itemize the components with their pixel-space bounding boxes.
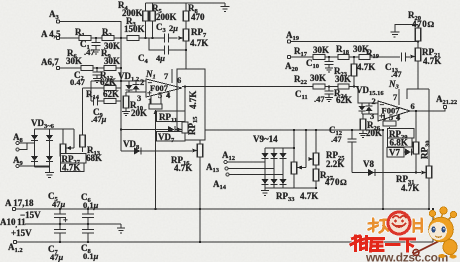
node A13	[206, 162, 274, 174]
wire A4,5	[60, 37, 79, 39]
wire	[325, 86, 338, 88]
pin 1	[148, 96, 152, 106]
diode array V9~14	[253, 130, 316, 188]
node A21,22	[436, 94, 457, 109]
VD7 label box	[157, 132, 186, 145]
wire VD8 line	[121, 150, 192, 152]
resistor R12	[83, 70, 122, 91]
wire	[114, 37, 121, 39]
resistor R3	[121, 16, 164, 41]
potentiometer RP15	[178, 85, 200, 140]
capacitor C4	[138, 38, 186, 65]
wire A6,7	[60, 67, 81, 69]
capacitor C9	[91, 97, 107, 124]
capacitor C11	[295, 87, 334, 105]
junction	[415, 171, 417, 173]
potentiometer RP29	[383, 121, 396, 131]
diode VD3	[31, 135, 38, 141]
watermark mascot	[413, 207, 457, 259]
diode VD8	[123, 139, 141, 155]
6.8K label box	[388, 138, 413, 148]
capacitor C8	[81, 224, 99, 261]
ground bridge	[45, 167, 54, 178]
junction dots rails	[59, 208, 61, 210]
wire box left edge	[382, 130, 384, 209]
resistor R4	[118, 0, 148, 38]
wire non-inverting U2	[362, 113, 378, 115]
junction	[353, 56, 355, 58]
wire A3 to bus	[60, 22, 121, 39]
diode VD5	[31, 156, 38, 162]
wire	[325, 56, 338, 58]
diode V7	[404, 149, 416, 156]
op-amp U1 F007	[145, 69, 182, 98]
capacitor C5	[48, 191, 68, 225]
resistor R23	[334, 57, 357, 87]
potentiometer RP16	[171, 140, 203, 242]
wire	[116, 67, 121, 69]
resistor R5	[150, 3, 177, 38]
junction	[95, 37, 97, 39]
resistor R6	[66, 48, 93, 71]
potentiometer RP25	[309, 130, 346, 169]
bridge wires	[34, 129, 36, 167]
potentiometer RP7	[179, 27, 209, 69]
capacitor C2	[70, 68, 102, 87]
junction	[328, 85, 330, 87]
RP11 label box	[157, 111, 186, 124]
node A20	[285, 55, 298, 73]
pin 5	[389, 112, 393, 122]
node A19	[286, 30, 300, 43]
capacitor C3	[156, 22, 178, 43]
capacitor C7	[48, 224, 66, 262]
wire 0V rail	[25, 223, 121, 225]
wire	[349, 56, 359, 58]
resistor R19	[357, 48, 400, 72]
resistor R18	[336, 44, 369, 60]
resistor R10	[123, 92, 147, 118]
ground top	[221, 3, 230, 12]
wire A20	[291, 56, 313, 58]
watermark stamp	[369, 212, 422, 234]
RP29 label box	[388, 129, 415, 142]
resistor R9	[101, 48, 120, 71]
junction	[185, 49, 187, 51]
wire op-amp inverting input	[91, 80, 146, 82]
resistor R2	[102, 27, 120, 51]
pin 7	[393, 89, 399, 105]
diode V14	[280, 179, 287, 185]
resistor R20	[408, 10, 435, 41]
bus vertical A3 line	[120, 38, 122, 151]
ground R20	[391, 25, 419, 38]
junction	[120, 128, 122, 130]
diode VD7	[168, 126, 181, 133]
capacitor C13	[385, 53, 410, 80]
diode V8	[352, 159, 421, 176]
potentiometer RP21	[411, 47, 442, 89]
junction	[120, 37, 122, 39]
wire right rail drop	[432, 209, 434, 242]
V7 label box	[387, 148, 404, 158]
pin 5	[158, 90, 162, 104]
wire	[93, 67, 104, 69]
diode V9	[262, 153, 269, 159]
junction	[96, 67, 98, 69]
ground R26	[359, 134, 367, 138]
wire A19	[291, 42, 418, 49]
top supply rail	[146, 2, 226, 4]
resistor R8	[183, 3, 205, 29]
junction	[353, 85, 355, 87]
watermark brand text	[351, 236, 415, 251]
diode V12	[262, 179, 269, 185]
node A10,11	[0, 217, 26, 229]
pin 7	[164, 69, 172, 83]
wire center bus	[205, 129, 383, 131]
resistor R26	[360, 114, 382, 138]
RP27 label box	[61, 154, 87, 173]
resistor R17	[294, 45, 329, 60]
frame box U2	[407, 89, 429, 209]
diode V10	[271, 153, 278, 159]
node A14	[213, 173, 283, 191]
potentiometer RP31	[396, 166, 432, 193]
wire to op-amp U2	[349, 87, 378, 104]
op-amp U2 F007	[378, 79, 410, 121]
potentiometer RP11	[149, 104, 162, 209]
node A3	[49, 9, 60, 23]
diodes VD15,16	[356, 85, 384, 114]
frame box U1	[177, 69, 205, 140]
pin 4	[396, 112, 401, 122]
wire left verticals	[90, 81, 92, 101]
node A8	[13, 132, 35, 151]
ground array	[261, 188, 269, 196]
ground 0V	[117, 224, 125, 233]
wire op-amp non-inverting input	[126, 91, 146, 93]
capacitor C12	[329, 125, 357, 173]
potentiometer RP30	[413, 110, 431, 173]
junction	[328, 56, 330, 58]
pin 1	[382, 112, 386, 124]
diode V13	[271, 179, 278, 185]
diode V11	[280, 153, 287, 159]
watermark url	[365, 251, 448, 262]
junction	[351, 129, 353, 131]
junction	[293, 147, 295, 149]
diode bridge VD3~6	[31, 118, 55, 130]
diode VD4	[46, 135, 53, 141]
paper noise overlay	[0, 0, 1, 1]
ground R10	[122, 112, 130, 116]
wire	[91, 37, 102, 39]
wire -15V rail	[16, 208, 429, 210]
potentiometer RP27	[60, 129, 74, 160]
resistor R27	[313, 165, 347, 188]
capacitor C6	[81, 192, 99, 224]
node A12	[222, 150, 265, 164]
pin 4	[166, 90, 171, 100]
junction	[120, 80, 122, 82]
node A17,18	[5, 198, 34, 211]
node A9	[13, 155, 50, 168]
resistor R22	[294, 73, 326, 89]
wire VD7 line	[121, 129, 168, 131]
junction	[144, 37, 146, 39]
node A6,7	[41, 57, 60, 70]
diodes VD1,2	[118, 71, 140, 92]
resistor R13	[80, 135, 102, 163]
resistor R1	[75, 27, 91, 41]
potentiometer RP33	[276, 130, 318, 203]
diode VD6	[46, 156, 53, 162]
resistor R24	[334, 84, 352, 105]
node A4,5	[41, 29, 61, 40]
output wire U2	[410, 109, 445, 111]
junction	[120, 67, 122, 69]
capacitor C10	[306, 57, 334, 72]
node A1,2	[8, 240, 23, 254]
wire +15V rail	[17, 241, 433, 243]
output wire op-amp U1	[182, 86, 313, 88]
capacitor C1	[80, 38, 101, 57]
resistor R14	[86, 89, 121, 104]
